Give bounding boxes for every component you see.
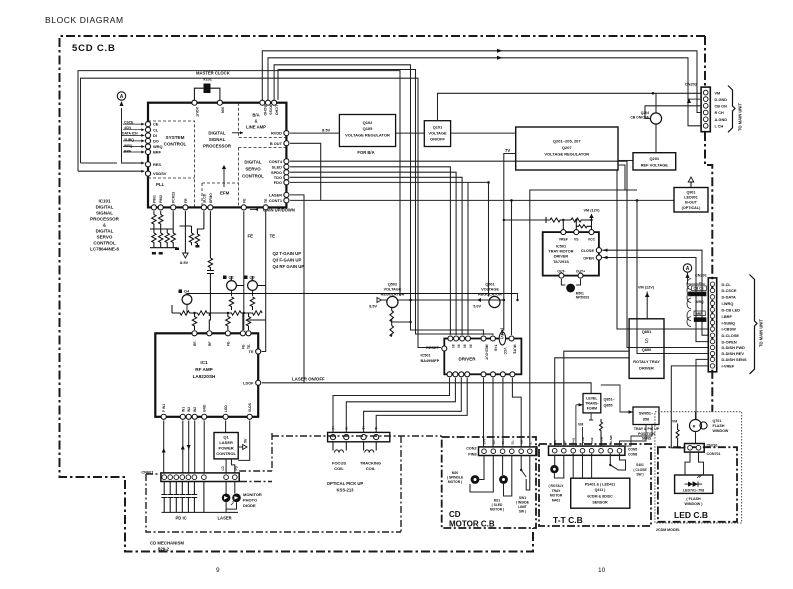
PS401 LED411 sensor box [571,454,630,509]
svg-text:MUTE: MUTE [512,345,516,355]
resistor network below IC101 PLL pins [150,211,214,330]
svg-text:MOTOR ): MOTOR ) [490,508,504,512]
IC101 left pins CE CL DI DO WRQ BRF RES VDDSV [145,122,166,177]
tray motor M501 [561,279,580,285]
svg-text:WRQ: WRQ [696,300,704,304]
svg-text:VM: VM [672,420,677,424]
svg-text:EFMO: EFMO [209,193,213,203]
Q101 voltage on/off [424,121,450,147]
svg-text:Q207: Q207 [562,145,573,150]
wire SPDO to driver IN2 [290,172,456,335]
svg-text:VOLTAGE: VOLTAGE [384,288,402,292]
wires IC1 bottom pins to CN601 [164,421,250,474]
svg-text:( ROTALY: ( ROTALY [548,484,564,488]
node A circle top-left [117,92,144,165]
svg-text:TRAY MOTOR: TRAY MOTOR [548,250,573,254]
input net labels CSCE CLK DATA SUBQ WRQ BRF [122,120,138,153]
svg-text:PROCESSOR: PROCESSOR [90,217,120,222]
connector CON2 PIN8 to CD motor board [466,438,537,456]
svg-text:7V: 7V [505,148,510,153]
wire LCHO to CN202 L CH [268,58,701,126]
svg-text:D-DISH SENS: D-DISH SENS [722,357,747,362]
svg-text:D-DISH FWD: D-DISH FWD [722,345,746,350]
gain-up note Q2 Q3 Q4 [273,251,305,269]
svg-text:RF-: RF- [193,341,197,347]
tracking coil symbol [364,442,377,453]
svg-text:P802: P802 [159,195,163,203]
svg-text:VM (12V): VM (12V) [583,209,600,213]
svg-text:Q856: Q856 [642,347,652,352]
svg-text:RVSS: RVSS [269,105,273,115]
connector CN202 [685,82,743,133]
svg-text:SUBQ: SUBQ [124,138,134,142]
wire MUTE tap from CONT1 bus [511,200,513,335]
svg-text:LC78644NE-8: LC78644NE-8 [90,247,119,252]
wires CLOSE OPEN to CN201 [602,250,708,335]
wire hops into CN201 upper pins [687,279,691,327]
label MONITOR PHOTO DIODE [243,492,262,508]
svg-text:BRF: BRF [696,312,703,316]
svg-text:B-: B- [562,440,566,443]
svg-text:IC101: IC101 [98,199,111,204]
svg-text:Q701: Q701 [713,419,722,423]
wires driver outputs to focus/tracking coils [333,378,467,433]
switch S401 close sw [609,454,647,477]
svg-text:VOLTAGE: VOLTAGE [481,288,499,292]
svg-text:Q4: Q4 [184,290,190,294]
svg-text:SENS: SENS [642,437,652,441]
svg-text:B+: B+ [553,439,557,443]
svg-text:PIN8: PIN8 [468,453,476,457]
svg-text:TE-: TE- [247,344,251,349]
wire FE vertical [243,211,245,330]
svg-text:REGULATOR: REGULATOR [478,293,502,297]
svg-text:SL+: SL+ [501,439,505,445]
driver bottom pins [447,372,515,377]
svg-text:KSS-213: KSS-213 [337,488,355,493]
svg-text:SYSTEM: SYSTEM [166,135,185,140]
svg-text:WRQ: WRQ [124,144,133,148]
svg-text:VM (12V): VM (12V) [638,286,655,290]
IC101 part number text block [90,199,120,252]
wire branch to CN201 D-DISH REV [636,199,639,202]
svg-text:SW1: SW1 [519,496,526,500]
svg-text:OUT-: OUT- [557,270,565,274]
resistor to I-SW [600,419,603,446]
svg-text:EFM: EFM [220,191,230,196]
svg-text:Q4 RF GAIN UP: Q4 RF GAIN UP [273,264,305,269]
svg-text:ON/OFF: ON/OFF [430,137,445,142]
svg-text:A-GND: A-GND [715,118,728,122]
IC101 digital signal processor / servo control [148,103,286,208]
svg-text:CL: CL [699,282,703,286]
svg-text:FLASH: FLASH [713,424,725,428]
svg-text:SW ): SW ) [519,510,526,514]
wire TDO to driver IN3 [290,177,462,335]
svg-text:T-T C.B: T-T C.B [553,515,583,525]
wire regulator bottom right branch [618,160,633,162]
svg-text:X101: X101 [203,78,212,82]
wire Q102 to Q101 [396,132,425,134]
wire VM to Q851 [646,292,648,319]
svg-text:D-CSCE: D-CSCE [722,288,737,293]
svg-text:9: 9 [216,567,220,574]
svg-text:MOTOR C.B: MOTOR C.B [449,520,495,529]
svg-text:T+: T+ [362,425,366,429]
svg-text:Q105: Q105 [363,126,374,131]
top pins VREF VS VCC [561,230,566,235]
transistor Q204 CB ON/OFF [630,93,701,152]
svg-text:CONTROL: CONTROL [164,142,187,147]
IC101 bottom pins P801 P802 PCK2S FR SLCD EFM FE TE [151,191,268,210]
svg-text:DIGITAL: DIGITAL [96,205,114,210]
svg-text:( FLASH: ( FLASH [686,497,701,501]
svg-text:TE: TE [249,350,254,354]
svg-text:COIL: COIL [366,466,376,471]
svg-text:SLCD: SLCD [202,193,206,203]
svg-text:RESET: RESET [426,345,440,350]
svg-text:TE: TE [270,234,276,239]
svg-text:VLDS: VLDS [248,402,252,412]
svg-text:SP+: SP+ [483,438,487,444]
svg-text:D-DISH REV: D-DISH REV [722,351,745,356]
svg-text:4CN: 4CN [124,126,131,130]
svg-text:VS: VS [574,238,579,242]
svg-text:DRIVER: DRIVER [458,357,476,362]
svg-text:VM: VM [715,91,721,95]
Q201 ref voltage [633,153,676,170]
svg-text:LD: LD [221,466,225,471]
svg-text:DO: DO [153,139,159,144]
svg-text:PROCESSOR: PROCESSOR [203,144,232,149]
svg-text:M401: M401 [552,498,560,502]
svg-text:SIGNAL: SIGNAL [96,211,113,216]
svg-text:LASER: LASER [218,516,232,521]
svg-text:Q501: Q501 [485,283,494,287]
driver top pins [448,336,514,341]
svg-text:Q851~: Q851~ [604,398,616,402]
svg-text:I-VREF: I-VREF [722,364,735,369]
svg-text:A: A [686,266,690,272]
svg-text:D-CLOSE: D-CLOSE [722,333,740,338]
bias resistor row above IC1 [172,305,266,330]
svg-text:I-SUBQ: I-SUBQ [722,320,736,325]
wire Q101 to Q201 regulator [451,132,516,134]
svg-text:WINDOW: WINDOW [713,429,729,433]
svg-text:CON701: CON701 [707,452,721,456]
svg-text:PCK2S: PCK2S [172,191,176,203]
svg-text:TRAY: TRAY [552,489,561,493]
svg-text:SERVO: SERVO [97,235,113,240]
svg-text:CN201: CN201 [695,274,707,278]
svg-text:VOLTAGE: VOLTAGE [428,131,447,136]
transistor Q701 flash window [690,412,729,444]
svg-text:B OUT: B OUT [270,141,283,146]
LED board outer dotted box (2CDM model) [655,412,742,523]
Q1 laser power control [214,433,248,474]
svg-text:LDOF: LDOF [243,382,254,386]
IC1 bottom pins [161,402,252,419]
svg-text:DATA(CH): DATA(CH) [690,292,706,296]
svg-text:L CH: L CH [715,125,724,129]
direction arrows on IC1 wires [162,445,191,453]
svg-text:FE: FE [248,234,254,239]
limit switch SW1 [516,456,530,514]
wire RVDD to Q102 regulator [290,132,339,134]
connector CON5 T-T board [549,435,638,456]
svg-text:TA7291S: TA7291S [553,260,569,264]
LED701-708 flash window [675,452,713,506]
svg-text:R: R [693,425,696,429]
svg-text:Q851: Q851 [642,329,652,334]
svg-text:PLL: PLL [156,182,165,187]
svg-text:LED901: LED901 [684,196,698,200]
svg-text:DIGITAL: DIGITAL [244,160,262,165]
svg-text:Q411 ): Q411 ) [595,488,607,492]
wires driver outputs to CON2 [484,190,626,447]
svg-text:S: S [644,339,648,345]
svg-text:RES: RES [153,162,161,167]
svg-text:FE-: FE- [226,341,230,346]
svg-text:BRF: BRF [153,150,162,155]
svg-text:IN1: IN1 [181,407,185,412]
IC501 tray motor driver TA7291S [543,209,709,342]
svg-text:FOR B/A: FOR B/A [357,150,374,155]
svg-text:RF: RF [208,342,212,346]
svg-text:DATA ICH: DATA ICH [122,132,138,136]
svg-text:PH1: PH1 [572,437,576,443]
Q201-205 207 voltage regulator [516,127,618,170]
op-amp driver IC BA4998FP [421,328,522,377]
transistor Q4 [179,290,519,314]
svg-text:T-: T- [375,427,379,430]
CD MOTOR C.B dashed board [442,437,536,528]
svg-text:CLOSE: CLOSE [581,249,595,253]
wire FDO to driver IN4 [290,182,468,335]
svg-text:F IN1: F IN1 [162,404,166,412]
svg-text:CE: CE [153,122,159,127]
svg-text:MED-OUT: MED-OUT [484,345,488,360]
level transform Q851-Q855 [576,394,616,447]
SW851-858 box [601,385,660,446]
sled motor M21 [490,456,512,512]
svg-text:SENSOR: SENSOR [592,501,608,505]
svg-text:F+: F+ [332,425,336,429]
junction FDO/Q501 [487,181,490,184]
svg-text:PD: PD [235,465,239,470]
connector CN701 [685,444,721,457]
svg-text:858: 858 [643,418,649,422]
svg-text:RCHO: RCHO [263,105,267,116]
svg-text:VCC: VCC [503,348,507,356]
svg-text:XIN: XIN [220,107,224,113]
svg-text:SW ): SW ) [636,473,643,477]
svg-text:FR: FR [184,198,188,203]
svg-text:Q102: Q102 [363,120,374,125]
svg-text:6CDM & 8DISC: 6CDM & 8DISC [587,495,613,499]
svg-text:5CD C.B: 5CD C.B [72,43,116,54]
T-T C.B dashed board [539,444,651,526]
wire CONT1 long bus to Q901 [290,199,674,201]
transistor Q502 voltage regulator [369,283,504,337]
transistor Q501 voltage regulator [473,283,505,309]
svg-text:8.5V: 8.5V [180,260,189,265]
svg-text:TO MAIN UNIT: TO MAIN UNIT [738,103,743,131]
Q851 rotaly tray driver [629,319,664,379]
svg-text:LEVEL: LEVEL [586,397,598,401]
svg-text:5.0V: 5.0V [473,305,481,309]
svg-text:M20: M20 [452,471,459,475]
svg-text:ROTALY TRAY: ROTALY TRAY [633,359,660,364]
svg-text:POWER: POWER [219,446,234,451]
svg-text:SW851~: SW851~ [639,412,654,416]
svg-text:10: 10 [598,567,606,574]
5CD C.B board border (dash-dot frame) [60,36,713,552]
svg-text:CON2: CON2 [466,447,476,451]
svg-text:B/A: B/A [252,113,259,118]
svg-text:LDD: LDD [224,405,228,412]
svg-text:TRAY & PIC UP: TRAY & PIC UP [634,427,660,431]
svg-text:( SLED: ( SLED [492,503,503,507]
svg-text:VCC: VCC [588,238,596,242]
transistor Q3 [244,276,266,297]
svg-text:LED701~708: LED701~708 [683,489,704,493]
IC1 RF amp LA9220SH [155,333,258,417]
svg-text:SUBQ: SUBQ [695,318,705,322]
Q102 Q105 voltage regulator for B/A [339,115,395,156]
svg-text:CONT4: CONT4 [269,159,283,164]
svg-text:FORM: FORM [587,407,597,411]
svg-text:SLED: SLED [272,164,283,169]
svg-text:COIL: COIL [334,466,344,471]
svg-text:CONTROL: CONTROL [242,174,264,179]
IC1 right pins TE LDOF [243,349,261,386]
IC101 top pins XOUT XIN RCHO RVSS LCHO [192,100,279,118]
svg-text:Q201: Q201 [650,156,660,161]
IC1 top pins RF- RF FE- FE TE- [192,331,251,349]
svg-text:CONT1: CONT1 [269,198,283,203]
svg-text:829-2: 829-2 [158,547,170,552]
svg-text:BLOCK DIAGRAM: BLOCK DIAGRAM [45,15,124,25]
svg-text:OPTICAL PICK UP: OPTICAL PICK UP [327,481,364,486]
svg-text:D-SW: D-SW [609,435,613,443]
node A above CN201 [683,264,705,284]
svg-text:Q201~205, 207: Q201~205, 207 [553,139,581,144]
svg-text:CN202: CN202 [685,82,698,87]
svg-text:IC501: IC501 [556,245,566,249]
svg-text:D-OPEN: D-OPEN [722,339,737,344]
svg-text:CN701: CN701 [707,444,718,448]
svg-text:OUT+: OUT+ [576,270,585,274]
svg-text:IL: IL [528,442,532,445]
svg-text:8.5V: 8.5V [322,128,331,133]
svg-text:FE-: FE- [241,344,245,349]
svg-text:( SPINDLE: ( SPINDLE [447,476,464,480]
svg-text:D-CB LED: D-CB LED [722,307,741,312]
spindle motor M20 [447,456,493,493]
svg-text:PH2: PH2 [590,437,594,443]
rotaly tray motor M401 [548,455,564,502]
wire B OUT join CONT1 bus [290,143,321,200]
svg-text:SIGNAL: SIGNAL [209,137,226,142]
wire RVSS down to driver [274,65,493,335]
svg-text:LCHO: LCHO [275,105,279,115]
svg-text:I-BRF: I-BRF [722,314,733,319]
svg-text:XOUT: XOUT [195,107,199,118]
wires from CN201 to LED board [671,366,708,448]
svg-text:MOTOR ): MOTOR ) [448,480,462,484]
svg-text:LINE AMP: LINE AMP [246,125,266,130]
wire D-GND with arrow [689,98,701,100]
svg-text:PD IC: PD IC [176,516,187,521]
svg-text:DIGITAL: DIGITAL [208,131,226,136]
svg-text:T+B: T+B [494,345,498,352]
svg-text:RF AMP: RF AMP [195,367,212,372]
monitor photo diode symbols [222,482,241,513]
svg-text:DRIVER: DRIVER [639,366,654,371]
svg-text:Q2 T-GAIN UP: Q2 T-GAIN UP [273,251,302,256]
svg-text:TE: TE [264,198,268,203]
brace to main unit [750,275,758,375]
svg-text:MOTOR: MOTOR [550,494,563,498]
svg-text:IC1: IC1 [200,360,208,365]
wire LASER down to laser on/off line [290,195,304,383]
svg-text:VDD: VDD [581,436,585,443]
svg-text:DIODE: DIODE [243,503,256,508]
svg-text:D-DATA: D-DATA [722,295,737,300]
svg-text:LASER ON/OFF: LASER ON/OFF [292,377,325,382]
svg-text:TRACKING: TRACKING [360,461,381,466]
wires Q851 to T-T connector [555,358,629,446]
svg-text:CON5: CON5 [628,448,637,452]
ground terminals below PLL network [152,245,200,255]
wire SLED to driver IN1 [290,167,450,335]
svg-text:( INSIDE: ( INSIDE [516,501,530,505]
svg-text:CB ON: CB ON [715,105,727,109]
svg-text:DRIVER: DRIVER [554,255,569,259]
svg-text:TO MAIN UNIT: TO MAIN UNIT [759,319,764,347]
svg-text:&: & [254,119,257,124]
wire TE vertical [262,211,266,351]
svg-text:DI: DI [153,133,157,138]
svg-text:Q855: Q855 [604,404,613,408]
svg-text:Q901: Q901 [686,191,695,195]
svg-text:CD MECHANISM: CD MECHANISM [150,541,184,546]
svg-text:Q101: Q101 [433,125,443,130]
svg-text:VM: VM [578,423,583,427]
IC101 right pins RVDD BOUT CONT4 SLED SPDO TDO FDO LASER CONT1 [269,131,289,203]
svg-text:PHOTO: PHOTO [243,498,257,503]
svg-text:A: A [120,94,124,100]
svg-text:F-: F- [345,426,349,429]
svg-text:P801: P801 [152,195,156,203]
crystal X101 master clock [194,71,229,100]
CD mechanism dashed boundary [146,433,442,532]
svg-text:LASER: LASER [219,440,233,445]
svg-text:Q502: Q502 [388,283,397,287]
svg-text:CONTROL: CONTROL [216,451,236,456]
svg-text:( CLOSE: ( CLOSE [633,468,647,472]
wire VCC from 7V rail [502,220,503,335]
capacitors under CN601 [161,482,238,513]
svg-text:D-GND: D-GND [715,98,728,102]
resistors under Q2 Q3 [229,297,254,310]
svg-text:TRANS-: TRANS- [585,402,599,406]
bottom pins OUT- OUT+ [559,273,564,278]
svg-text:LED C.B: LED C.B [674,510,708,520]
svg-text:SP-: SP- [492,439,496,444]
wire regulator to CN201 I-CBSW [617,170,708,329]
